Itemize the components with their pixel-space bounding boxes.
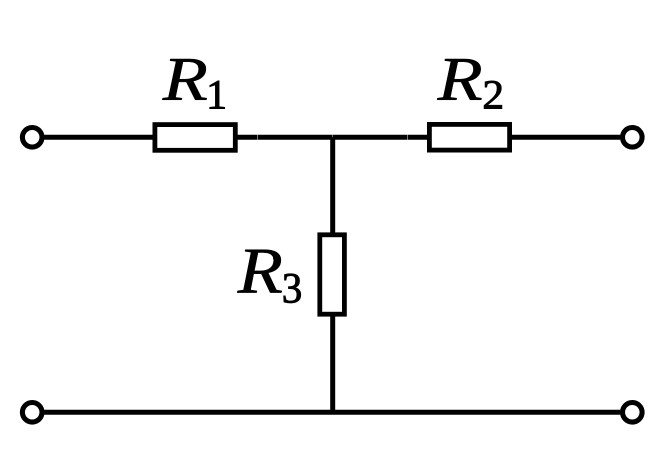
label R3 subscript 3 <box>284 274 301 303</box>
wire top-right lead <box>511 135 621 140</box>
resistor R2 <box>429 124 509 150</box>
wire vertical lower <box>330 315 335 414</box>
wire seam right of junction <box>406 135 408 140</box>
wire vertical upper <box>330 135 335 236</box>
label R2 subscript 2 <box>484 81 502 109</box>
resistor R3 <box>320 235 345 314</box>
resistor R1 <box>155 125 235 151</box>
terminal top-left <box>22 128 42 148</box>
wire bottom rail <box>44 410 620 415</box>
label R3 letter R <box>237 250 282 293</box>
terminal top-right <box>623 128 643 148</box>
terminal bottom-right <box>623 403 643 423</box>
label R1 letter R <box>162 59 207 100</box>
label R1 subscript 1 <box>210 81 225 109</box>
wire seam left of junction <box>256 135 258 140</box>
wire top-left lead <box>44 135 156 140</box>
terminal bottom-left <box>22 403 42 423</box>
junction notch <box>332 135 334 138</box>
wire between R1 and R2 <box>237 135 430 140</box>
label R2 letter R <box>437 59 482 100</box>
